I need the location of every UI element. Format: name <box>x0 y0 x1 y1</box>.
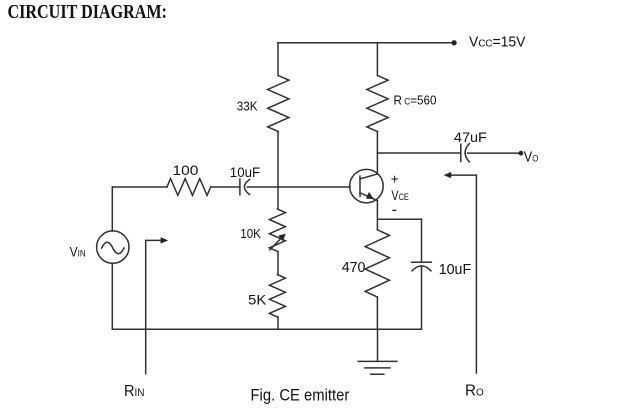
wire input cap to base node <box>247 186 278 188</box>
wire 33K bottom lead <box>277 132 279 188</box>
arrowhead Rin <box>161 237 169 243</box>
transistor Q1 base bar <box>359 176 361 196</box>
arrow Rin measure line <box>146 240 161 373</box>
wire pot to 5K <box>277 251 279 274</box>
wire collector lead <box>376 153 378 174</box>
svg-text:100: 100 <box>173 162 199 178</box>
potentiometer wiper arrow shaft <box>270 238 282 250</box>
capacitor C3 10uF bypass <box>412 262 432 271</box>
wire 5K bottom lead <box>277 317 279 329</box>
svg-text:47uF: 47uF <box>454 129 487 145</box>
svg-text:+: + <box>391 172 399 187</box>
transistor Q1 collector stroke <box>360 174 377 179</box>
svg-text:RO: RO <box>465 382 484 399</box>
node Vo dot <box>519 151 524 156</box>
svg-text:VCC=15V: VCC=15V <box>469 33 526 50</box>
source Vin sine <box>102 242 124 254</box>
svg-text:5K: 5K <box>248 292 267 308</box>
source Vin circle <box>97 231 129 263</box>
wire collector node to output cap <box>377 152 460 154</box>
wire input top from Vin <box>112 186 167 188</box>
arrowhead emitter <box>366 192 374 199</box>
wire Rc top lead <box>376 43 378 76</box>
arrowhead Ro <box>444 172 452 178</box>
wire 470 bottom lead <box>376 297 378 329</box>
svg-text:-: - <box>392 201 397 218</box>
wire Vin top lead <box>111 187 113 231</box>
wire bypass top lead <box>421 219 423 262</box>
wire 33K top lead <box>277 43 279 76</box>
wire 100 to input cap <box>211 186 240 188</box>
wire emitter lead <box>376 201 378 230</box>
svg-text:10K: 10K <box>240 226 261 241</box>
svg-text:CIRCUIT DIAGRAM:: CIRCUIT DIAGRAM: <box>8 2 168 23</box>
svg-text:RIN: RIN <box>124 383 145 400</box>
ground stem <box>377 329 379 361</box>
wire emitter node to bypass branch <box>377 218 421 220</box>
svg-text:Fig. CE emitter: Fig. CE emitter <box>251 387 350 405</box>
arrowhead potentiometer wiper <box>278 234 286 242</box>
transistor Q1 circle <box>350 169 384 203</box>
wire Vin bottom lead <box>111 263 113 329</box>
capacitor C1 10uF input <box>240 179 250 195</box>
wire base <box>278 186 350 188</box>
wire base node to pot <box>277 187 279 209</box>
svg-text:470: 470 <box>342 260 366 276</box>
arrow Ro measure line <box>452 175 477 373</box>
svg-text:10uF: 10uF <box>439 261 472 278</box>
resistor Rc 560 <box>367 76 388 132</box>
wire Rc bottom lead <box>376 132 378 154</box>
svg-text:33K: 33K <box>237 99 258 114</box>
node VCC dot <box>452 40 457 45</box>
resistor R 100 <box>167 179 211 196</box>
svg-text:VO: VO <box>524 150 539 166</box>
ground bars <box>358 361 397 374</box>
svg-text:VIN: VIN <box>70 244 86 259</box>
svg-text:10uF: 10uF <box>230 164 260 180</box>
resistor 5K <box>269 275 285 317</box>
capacitor C2 47uF <box>461 144 470 162</box>
resistor Re 470 <box>365 230 389 297</box>
wire VCC top rail <box>278 42 453 44</box>
wire bypass bottom lead <box>421 266 423 329</box>
wire output cap to Vo <box>468 152 519 154</box>
wire bottom rail <box>112 328 421 330</box>
transistor Q1 emitter stroke <box>360 193 377 201</box>
svg-text:R C=560: R C=560 <box>394 94 437 108</box>
potentiometer 10K <box>269 209 285 251</box>
resistor 33K <box>268 76 289 132</box>
